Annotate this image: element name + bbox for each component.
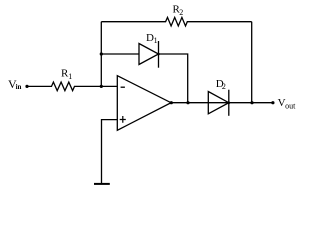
svg-text:in: in [16, 83, 22, 91]
svg-text:2: 2 [222, 82, 226, 91]
svg-text:2: 2 [179, 8, 183, 17]
svg-text:out: out [285, 102, 296, 111]
svg-text:1: 1 [68, 72, 72, 81]
svg-text:1: 1 [154, 36, 158, 45]
